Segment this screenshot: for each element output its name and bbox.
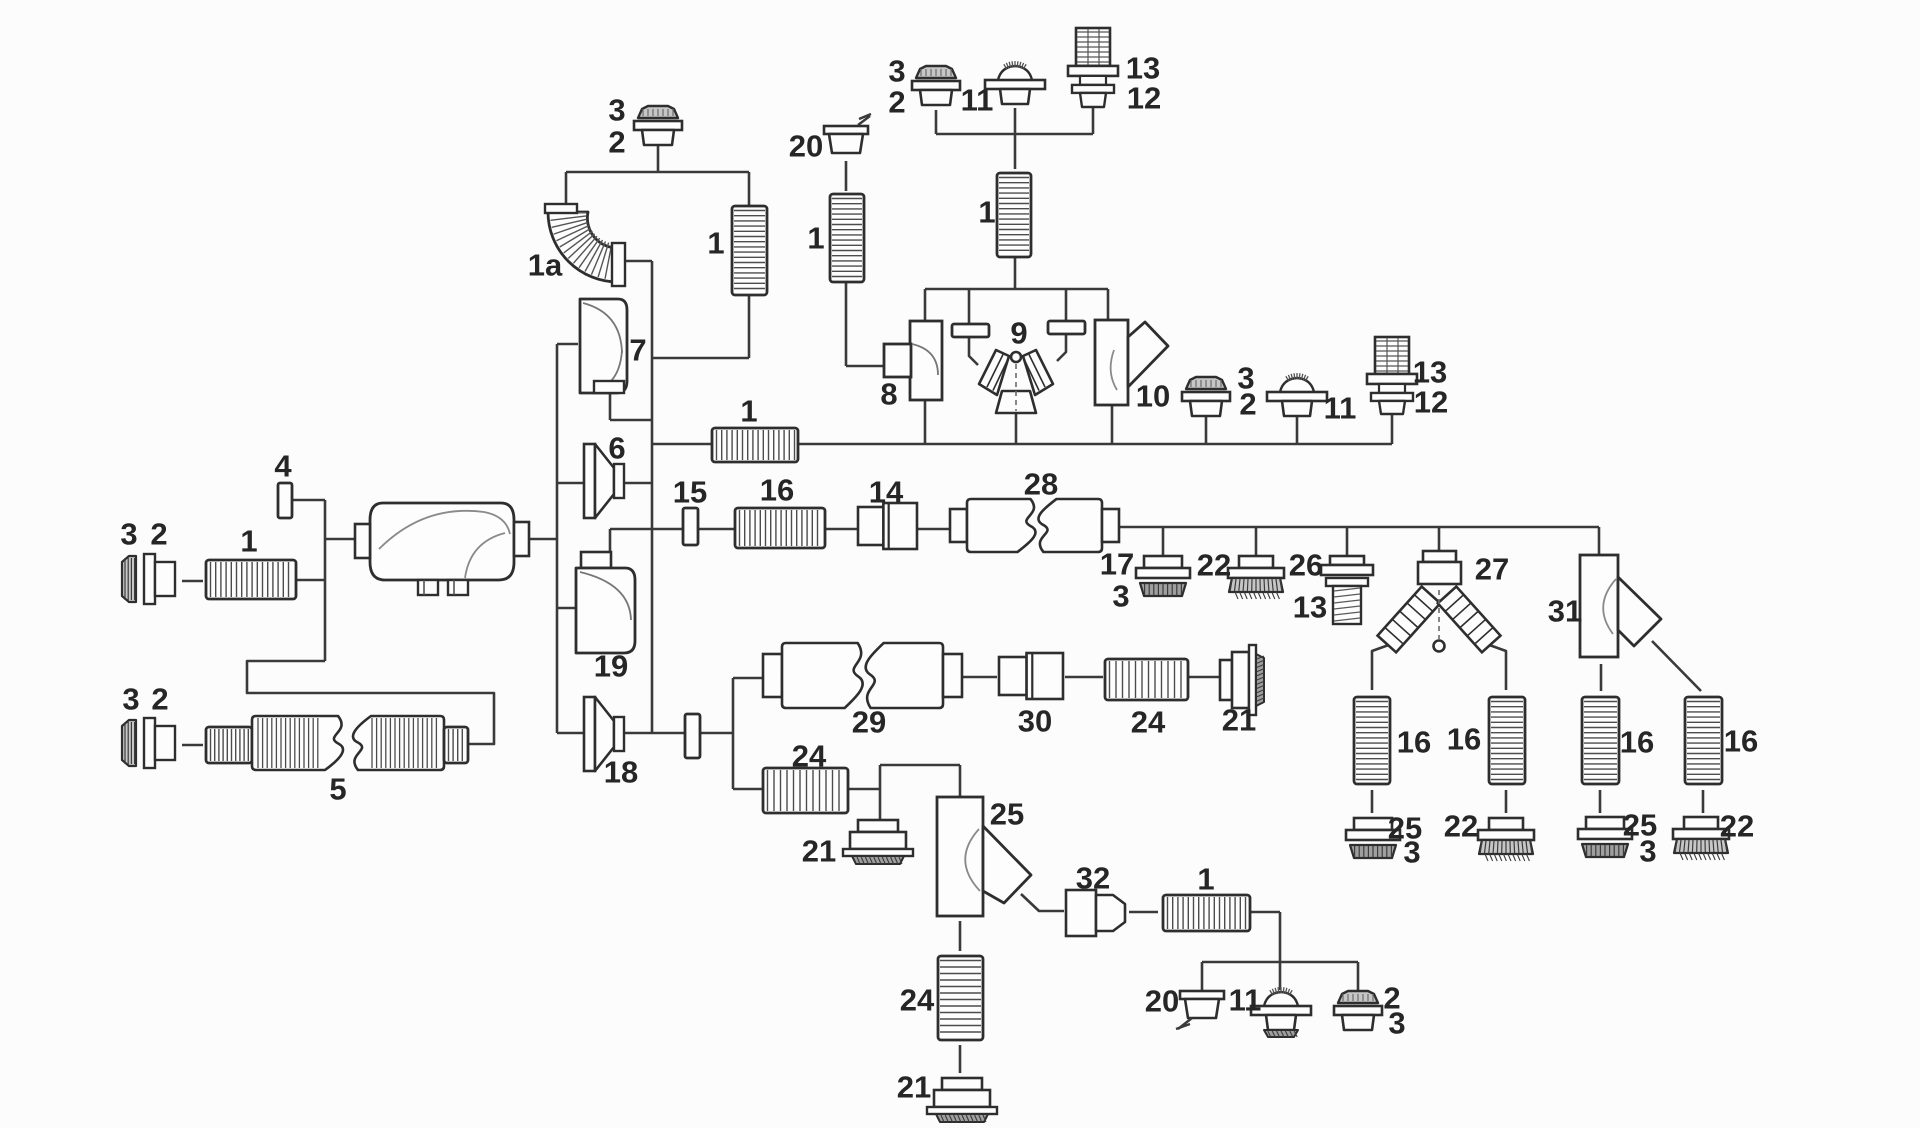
svg-text:1: 1 xyxy=(740,394,757,429)
svg-text:3: 3 xyxy=(1403,835,1420,870)
svg-text:4: 4 xyxy=(274,449,292,484)
svg-text:1: 1 xyxy=(707,226,724,261)
svg-text:9: 9 xyxy=(1010,316,1027,351)
svg-text:7: 7 xyxy=(629,333,646,368)
svg-text:28: 28 xyxy=(1024,467,1058,502)
svg-text:12: 12 xyxy=(1414,385,1448,420)
svg-text:5: 5 xyxy=(329,772,346,807)
svg-text:1: 1 xyxy=(1197,862,1214,897)
svg-text:3: 3 xyxy=(1639,834,1656,869)
svg-text:14: 14 xyxy=(869,475,904,510)
svg-text:12: 12 xyxy=(1127,81,1161,116)
svg-text:8: 8 xyxy=(880,377,897,412)
svg-text:3: 3 xyxy=(1388,1006,1405,1041)
svg-text:2: 2 xyxy=(608,125,625,160)
svg-text:16: 16 xyxy=(1620,725,1654,760)
svg-text:15: 15 xyxy=(673,475,707,510)
svg-text:19: 19 xyxy=(594,649,628,684)
svg-text:22: 22 xyxy=(1197,548,1231,583)
svg-text:24: 24 xyxy=(900,983,935,1018)
svg-text:1a: 1a xyxy=(528,248,563,283)
svg-text:21: 21 xyxy=(1222,703,1256,738)
svg-text:13: 13 xyxy=(1293,590,1327,625)
svg-text:16: 16 xyxy=(1724,724,1758,759)
svg-text:26: 26 xyxy=(1289,548,1323,583)
svg-text:22: 22 xyxy=(1720,809,1754,844)
svg-text:16: 16 xyxy=(1447,722,1481,757)
svg-text:22: 22 xyxy=(1444,809,1478,844)
svg-text:27: 27 xyxy=(1475,552,1509,587)
svg-text:30: 30 xyxy=(1018,704,1052,739)
svg-text:2: 2 xyxy=(151,682,168,717)
svg-text:3: 3 xyxy=(608,93,625,128)
svg-text:1: 1 xyxy=(240,524,257,559)
svg-text:24: 24 xyxy=(792,739,827,774)
svg-text:31: 31 xyxy=(1548,594,1582,629)
svg-text:11: 11 xyxy=(1229,983,1262,1018)
svg-text:24: 24 xyxy=(1131,705,1166,740)
svg-text:21: 21 xyxy=(802,834,836,869)
svg-text:32: 32 xyxy=(1076,861,1110,896)
svg-text:2: 2 xyxy=(1239,387,1256,422)
svg-text:1: 1 xyxy=(807,221,824,256)
svg-text:25: 25 xyxy=(990,797,1024,832)
svg-text:1: 1 xyxy=(978,195,995,230)
svg-text:11: 11 xyxy=(961,83,994,118)
svg-text:10: 10 xyxy=(1136,379,1170,414)
svg-text:18: 18 xyxy=(604,755,638,790)
svg-text:16: 16 xyxy=(760,473,794,508)
svg-text:20: 20 xyxy=(1145,984,1179,1019)
svg-text:29: 29 xyxy=(852,705,886,740)
svg-text:2: 2 xyxy=(888,85,905,120)
svg-text:21: 21 xyxy=(897,1070,931,1105)
svg-text:3: 3 xyxy=(888,54,905,89)
svg-text:6: 6 xyxy=(608,431,625,466)
svg-text:3: 3 xyxy=(122,682,139,717)
svg-text:3: 3 xyxy=(120,517,137,552)
svg-text:20: 20 xyxy=(789,129,823,164)
svg-text:17: 17 xyxy=(1100,547,1134,582)
svg-text:3: 3 xyxy=(1112,579,1129,614)
svg-text:11: 11 xyxy=(1324,391,1357,426)
svg-text:16: 16 xyxy=(1397,725,1431,760)
svg-text:2: 2 xyxy=(150,517,167,552)
